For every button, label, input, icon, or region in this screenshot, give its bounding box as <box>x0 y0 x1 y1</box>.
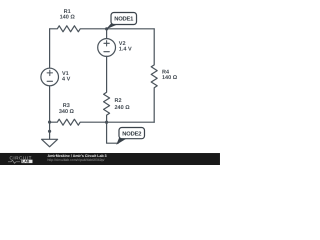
svg-text:htlp://circuitlab.com/c/pub/4z: htlp://circuitlab.com/c/pub/4zb68369p/ <box>47 158 104 162</box>
svg-text:4 V: 4 V <box>62 76 71 82</box>
svg-text:240 Ω: 240 Ω <box>114 105 130 111</box>
svg-text:340 Ω: 340 Ω <box>59 109 75 115</box>
svg-text:140 Ω: 140 Ω <box>60 14 76 20</box>
svg-text:NODE1: NODE1 <box>114 16 134 23</box>
svg-text:140 Ω: 140 Ω <box>162 75 178 81</box>
svg-text:R2: R2 <box>114 98 121 104</box>
svg-text:LAB: LAB <box>22 160 30 164</box>
svg-text:NODE2: NODE2 <box>122 130 141 137</box>
svg-text:1.4 V: 1.4 V <box>119 47 132 53</box>
